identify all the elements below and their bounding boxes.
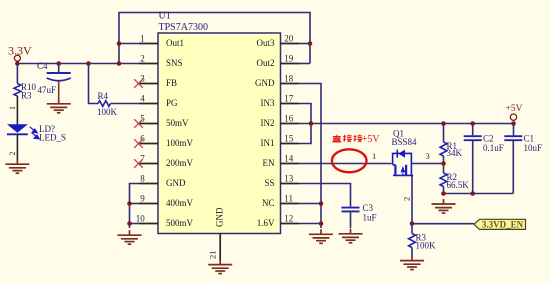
junction pin9	[127, 201, 132, 206]
svg-text:15: 15	[284, 133, 294, 143]
svg-text:1: 1	[372, 151, 376, 161]
wire EN node to 3.3VD_EN port	[412, 223, 474, 225]
U1 right pin names	[255, 38, 275, 228]
svg-text:Out2: Out2	[257, 58, 275, 68]
svg-text:7: 7	[140, 153, 145, 163]
LED LD? LED_S	[7, 124, 28, 133]
ground below LED	[5, 159, 29, 173]
U1 pin 21 stub	[219, 234, 221, 261]
svg-text:16: 16	[284, 113, 294, 123]
svg-text:3: 3	[140, 73, 145, 83]
no-connect X pin 3	[134, 79, 143, 88]
svg-text:50mV: 50mV	[166, 118, 189, 128]
wire LED to ground	[16, 134, 18, 160]
svg-text:GND: GND	[255, 78, 275, 88]
no-connect X pin 7	[134, 159, 143, 168]
svg-text:2: 2	[402, 197, 412, 201]
svg-text:+5V: +5V	[362, 134, 381, 145]
svg-text:IN1: IN1	[261, 138, 275, 148]
svg-text:IN2: IN2	[261, 118, 275, 128]
svg-text:Out3: Out3	[257, 38, 276, 48]
svg-text:400mV: 400mV	[166, 198, 194, 208]
svg-text:SNS: SNS	[166, 58, 183, 68]
wire pin1 Out1	[119, 43, 139, 45]
svg-text:2: 2	[140, 53, 145, 63]
svg-text:1: 1	[8, 106, 17, 110]
capacitor C1 10uF	[513, 124, 515, 136]
no-connect X pin 6	[134, 139, 143, 148]
U1 left pin stubs	[139, 44, 158, 224]
resistor R3 100K	[411, 224, 413, 234]
junction R1 top at +5V rail	[441, 121, 446, 126]
ground below C4	[47, 99, 71, 113]
svg-text:2: 2	[8, 152, 17, 156]
wire C4 to ground	[58, 81, 60, 99]
resistor R2 66.5K	[440, 173, 447, 187]
svg-text:100K: 100K	[97, 107, 118, 117]
resistor R4 100K	[98, 101, 111, 107]
svg-text:C1: C1	[524, 133, 535, 143]
resistor R1 34K	[443, 124, 445, 143]
ground below R3	[400, 256, 424, 270]
svg-text:20: 20	[284, 33, 294, 43]
wire pin19 Out2	[299, 63, 310, 65]
svg-text:11: 11	[284, 193, 293, 203]
junction pin11	[319, 201, 324, 206]
junction pin10	[127, 221, 132, 226]
wire R1 to R2	[443, 156, 445, 173]
svg-text:200mV: 200mV	[166, 158, 194, 168]
wire pin14 EN to Q1 gate	[299, 163, 392, 165]
U1 left pin numbers	[136, 33, 146, 223]
svg-text:14: 14	[284, 153, 294, 163]
capacitor C3 1uF	[342, 207, 360, 209]
svg-text:8: 8	[140, 173, 145, 183]
svg-text:10uF: 10uF	[524, 143, 543, 153]
wire R4 to PG pin4	[111, 103, 140, 105]
capacitor C2 0.1uF	[470, 121, 475, 126]
capacitor C4 47uF	[56, 61, 61, 66]
svg-text:LED_S: LED_S	[39, 133, 66, 143]
no-connect X pin 5	[134, 119, 143, 128]
wire pin17 IN3	[299, 104, 311, 124]
annotation red ellipse	[332, 149, 367, 172]
svg-text:21: 21	[208, 251, 218, 260]
svg-text:C4: C4	[37, 61, 48, 71]
wire pin15 IN1	[299, 124, 311, 144]
wire Q1 source down to EN node	[411, 175, 413, 223]
junction pin20/loop	[308, 41, 313, 46]
svg-text:500mV: 500mV	[166, 218, 194, 228]
wire R10 to LED	[16, 96, 18, 124]
svg-text:100mV: 100mV	[166, 138, 194, 148]
svg-text:66.5K: 66.5K	[447, 180, 470, 190]
U1 right pin numbers	[284, 33, 294, 223]
junction Q1 drain / R1 / R2	[441, 161, 446, 166]
U1 right pin stubs	[281, 44, 300, 224]
wire GND bus pins 8,9,10	[130, 184, 140, 229]
wire +5V rail from IN2 pin16	[299, 123, 514, 125]
svg-text:BSS84: BSS84	[392, 137, 418, 147]
svg-text:10: 10	[136, 213, 146, 223]
wire 3.3V rail to SNS pin2	[17, 63, 139, 65]
svg-text:+5V: +5V	[506, 104, 523, 114]
svg-text:1uF: 1uF	[363, 213, 377, 223]
svg-text:9: 9	[140, 193, 145, 203]
svg-text:6: 6	[140, 133, 145, 143]
svg-text:TPS7A7300: TPS7A7300	[159, 22, 208, 33]
svg-text:18: 18	[284, 73, 294, 83]
wire pin18 GND to right ground bus	[299, 84, 321, 229]
svg-text:13: 13	[284, 173, 294, 183]
ground left pin bus	[118, 230, 142, 244]
svg-text:FB: FB	[166, 78, 177, 88]
svg-text:34K: 34K	[447, 148, 463, 158]
junction EN node	[410, 221, 415, 226]
ground at U1 pin 21	[208, 260, 232, 274]
wire pin20 Out3	[299, 43, 310, 45]
wire R3 to ground	[411, 248, 413, 257]
wire pin12 1.6V	[299, 223, 321, 225]
wire 3.3V down to R10	[16, 64, 18, 84]
svg-text:IN3: IN3	[261, 98, 275, 108]
svg-text:R4: R4	[98, 91, 109, 101]
ground below C3	[339, 229, 363, 243]
wire capacitor bottom bus	[444, 193, 514, 195]
svg-text:0.1uF: 0.1uF	[483, 143, 504, 153]
svg-text:12: 12	[284, 213, 293, 223]
junction 3.3V rail/loop	[117, 61, 122, 66]
svg-text:1: 1	[140, 33, 145, 43]
svg-text:1.6V: 1.6V	[257, 218, 275, 228]
svg-text:17: 17	[284, 93, 294, 103]
resistor R10 (value R3)	[14, 84, 21, 97]
svg-text:3.3VD_EN: 3.3VD_EN	[482, 219, 524, 229]
svg-text:3.3V: 3.3V	[8, 44, 32, 58]
junction pin12	[319, 221, 324, 226]
IC U1 TPS7A7300 body	[158, 33, 281, 234]
svg-text:4: 4	[140, 93, 145, 103]
svg-text:100K: 100K	[416, 241, 437, 251]
svg-text:3: 3	[426, 151, 430, 161]
svg-text:NC: NC	[262, 198, 275, 208]
svg-text:GND: GND	[166, 178, 186, 188]
net label 3.3VD_EN	[474, 219, 526, 229]
ground below R2	[432, 199, 456, 213]
svg-text:EN: EN	[263, 158, 275, 168]
wire R2 to ground node	[443, 187, 445, 194]
wire top loop Out1-Out3	[119, 13, 310, 64]
wire pin13 SS to C3	[299, 184, 351, 207]
svg-text:SS: SS	[264, 178, 274, 188]
wire C3 to ground	[350, 211, 352, 228]
svg-text:5: 5	[140, 113, 145, 123]
wire 3.3V rail branch to R4	[86, 61, 91, 66]
U1 left pin names	[166, 38, 194, 228]
annotation red text 直接接+5V	[332, 135, 362, 142]
svg-text:C2: C2	[483, 133, 494, 143]
wire pin11 NC	[299, 203, 321, 205]
junction IN rail	[309, 121, 314, 126]
svg-text:19: 19	[284, 53, 294, 63]
svg-text:C3: C3	[363, 203, 374, 213]
svg-text:PG: PG	[166, 98, 178, 108]
svg-text:R3: R3	[21, 91, 32, 101]
junction C2 bottom	[470, 191, 475, 196]
svg-text:Out1: Out1	[166, 38, 184, 48]
junction pin1/top loop	[117, 41, 122, 46]
junction R2 bottom	[441, 191, 446, 196]
wire Q1 drain to R1/R2 junction	[411, 163, 443, 165]
svg-text:GND: GND	[215, 207, 225, 227]
svg-text:47uF: 47uF	[38, 85, 57, 95]
ground right pin bus	[309, 229, 333, 243]
